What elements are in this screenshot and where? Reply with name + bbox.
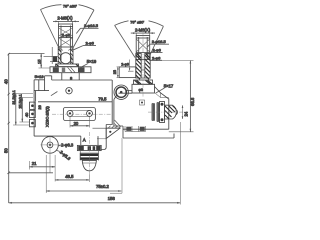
side centerline vertical <box>142 30 144 98</box>
dim 31.5 ext lines <box>13 94 33 126</box>
svg-text:5×17: 5×17 <box>164 84 174 89</box>
dim 75 arrows <box>46 190 121 192</box>
angle dim 76 left: right arm <box>72 10 94 50</box>
leader rotated label <box>57 150 60 151</box>
body right edge <box>106 80 112 125</box>
dim line 2-M8 right <box>131 32 155 34</box>
flange under fork <box>56 64 79 67</box>
ext vertical gland tip to 156 <box>179 122 181 205</box>
head column left <box>59 24 73 47</box>
dome inner line <box>83 162 96 164</box>
block top faint line <box>97 138 106 140</box>
side collar dark blocks <box>135 80 153 84</box>
angle dim 76 left: left arm <box>41 10 61 52</box>
dim 24 arrows <box>182 105 184 119</box>
roller pin left pad <box>53 56 57 62</box>
plunger neck <box>81 136 98 145</box>
side collar row <box>134 80 153 84</box>
side head inner lines <box>139 37 148 60</box>
plunger flange <box>77 145 101 150</box>
head column inner lines <box>61 26 70 48</box>
left chain ticks <box>7 53 10 174</box>
side body outline <box>114 87 169 130</box>
collar outline <box>50 67 91 73</box>
dim 15: top ext line <box>9 53 45 55</box>
dim 25 arrows <box>117 67 119 78</box>
leader 2-phi6 lower <box>74 46 97 50</box>
plunger centerline <box>88 132 90 175</box>
svg-text:2-φ6: 2-φ6 <box>62 32 71 37</box>
svg-text:2-φ5.3: 2-φ5.3 <box>59 149 72 161</box>
svg-text:156: 156 <box>108 196 116 201</box>
dim line 2-M8 left head <box>53 20 79 22</box>
ext vertical roller center <box>49 155 51 173</box>
svg-text:15: 15 <box>36 59 41 64</box>
side fork right plate hatched <box>145 54 150 79</box>
ext line top 66.6 <box>150 60 193 62</box>
dim 21 line <box>29 166 55 168</box>
wing triangle <box>106 128 120 138</box>
dim 48.5 arrows <box>55 179 89 181</box>
terminal screw 3 <box>30 120 36 127</box>
left chain vertical line <box>8 54 10 204</box>
hole upper left <box>66 88 72 94</box>
dim 75 line <box>46 190 121 192</box>
roller crosshair <box>40 135 59 154</box>
base small rects <box>125 126 146 132</box>
body left edge <box>34 80 36 136</box>
nameplate hole right <box>87 110 93 116</box>
dim 31.5 line <box>15 94 17 126</box>
svg-text:25.5±0.1: 25.5±0.1 <box>18 94 22 108</box>
ext vertical plunger center <box>88 175 90 183</box>
fork cross lines <box>59 47 73 50</box>
angle dim 76 right: arc left segment <box>115 21 129 26</box>
svg-text:2-φ6: 2-φ6 <box>86 41 95 46</box>
gland cap hatched <box>165 105 177 119</box>
dim 15 lower ext <box>39 67 51 69</box>
angle dim 76 right: right arm <box>150 26 163 55</box>
gland tip nub <box>176 110 177 115</box>
bellows band 2 <box>80 157 98 160</box>
flange dark blocks <box>78 146 84 150</box>
side head mid line <box>136 52 150 54</box>
head column cross brace <box>59 28 73 47</box>
svg-text:A: A <box>83 138 86 143</box>
angle dim 76 left: arc right segment <box>79 5 95 10</box>
svg-text:24: 24 <box>183 111 188 116</box>
dim 66.6 vertical line <box>189 61 191 132</box>
leader 5x19 right <box>79 64 88 68</box>
dim 156 line <box>9 202 181 204</box>
side fork left plate hatched <box>136 54 141 79</box>
leader 5x17 <box>156 88 165 93</box>
nameplate hole left <box>67 110 73 116</box>
terminal screw 2 <box>30 110 36 117</box>
svg-text:5×19: 5×19 <box>35 74 45 79</box>
bellows band 1 <box>80 154 98 157</box>
dim 25.5 arrows <box>21 98 23 123</box>
leader arrowhead <box>129 68 130 70</box>
side head base block <box>132 84 155 93</box>
svg-text:50: 50 <box>3 148 8 153</box>
terminal screw 2 dot <box>31 113 34 116</box>
centerline through holes <box>52 113 112 115</box>
svg-text:79.5: 79.5 <box>98 96 107 101</box>
gland strip dark bars <box>153 104 154 120</box>
fork left plate hatched <box>58 47 61 64</box>
wing screw dot <box>109 131 111 133</box>
lower right block <box>101 125 106 150</box>
dim 15 arrows <box>40 54 42 69</box>
svg-text:2-φ6: 2-φ6 <box>152 55 161 60</box>
small detail rect in side body <box>140 100 145 105</box>
dim 24 line <box>182 105 184 119</box>
cable gland strips <box>152 103 160 122</box>
dim 21 arrows <box>29 166 55 168</box>
dim arrows 2-M8 right <box>133 32 153 34</box>
dim 20 arrows <box>70 125 90 127</box>
angle dim 76 left: arc left segment <box>41 5 62 10</box>
ear top edge <box>34 76 52 80</box>
lever roller center dot <box>49 144 51 146</box>
collar screw mid-left <box>62 68 65 72</box>
pin lower line <box>50 61 58 63</box>
collar screw left <box>53 67 59 72</box>
dim 156 arrows <box>9 202 181 204</box>
dim 25.5 ext lines <box>20 98 34 123</box>
terminal screw 1 <box>30 102 36 109</box>
head column top inner cap <box>59 26 73 28</box>
leader diagonal from text <box>51 92 58 96</box>
gland nut block <box>160 102 165 123</box>
fork right plate hatched <box>70 47 73 64</box>
leader right lower <box>150 59 162 61</box>
base hatch left corner <box>115 120 121 127</box>
hole upper left dot <box>68 90 70 92</box>
svg-text:2-φ16.5: 2-φ16.5 <box>84 23 99 28</box>
collar center hatch <box>68 67 76 72</box>
svg-text:21: 21 <box>32 161 37 166</box>
svg-text:8: 8 <box>70 75 73 80</box>
svg-text:5×19: 5×19 <box>87 59 97 64</box>
dim 25 ext ticks <box>117 67 122 78</box>
roller pin left bracket vertical <box>51 47 53 64</box>
wing hatch ticks <box>108 126 121 129</box>
svg-text:76° ±30': 76° ±30' <box>130 20 144 24</box>
side head cap line <box>136 37 150 39</box>
side head column <box>136 36 150 60</box>
dim 21 ext verticals <box>29 155 55 182</box>
small detail dot <box>141 102 143 104</box>
svg-text:26: 26 <box>38 105 42 109</box>
svg-text:20: 20 <box>74 121 79 126</box>
slot lines between holes <box>70 110 90 116</box>
bellows collar <box>80 151 98 153</box>
base feet dark left <box>126 127 131 131</box>
angle dim 76 right: left arm <box>115 25 135 57</box>
ext line bottom 66.6 <box>169 131 194 133</box>
leader 2-phi16.5 right <box>148 44 170 47</box>
side head cross <box>136 39 150 52</box>
svg-text:75±0.2: 75±0.2 <box>96 184 109 189</box>
ext line y172.8 <box>9 172 53 174</box>
head column mid line <box>59 37 73 39</box>
ext verticals 2-M8 right <box>136 33 150 35</box>
nameplate hole left dot <box>69 112 71 114</box>
lever roller hub <box>47 142 53 148</box>
dim 15 vertical line <box>40 54 42 69</box>
side roller circle outer <box>114 85 128 99</box>
lever roller <box>42 137 59 154</box>
leader right upper <box>148 53 163 55</box>
svg-text:48.5: 48.5 <box>65 174 74 179</box>
dim 66.6 arrows <box>190 61 192 132</box>
body top edge <box>52 79 112 81</box>
ext vertical left 75 <box>45 155 47 193</box>
bellows sides <box>80 153 98 160</box>
dim 48.5 line <box>55 179 89 181</box>
roller pin centerline left <box>44 56 59 58</box>
side body inner corner lines <box>155 93 169 98</box>
ear slot <box>34 80 49 91</box>
dim 20 line <box>70 125 90 127</box>
ext vertical from base left to 75 dim <box>121 138 123 193</box>
ext verticals 2-M8 left <box>59 21 73 24</box>
inner line lower right <box>93 127 121 129</box>
svg-text:31.5±0.1: 31.5±0.1 <box>12 90 16 104</box>
base feet dark right <box>140 127 145 131</box>
leader 2-phi16.5 <box>76 28 98 33</box>
svg-text:2-φ16.5: 2-φ16.5 <box>152 39 167 44</box>
dim arrows 2-M8 left <box>55 21 75 23</box>
svg-text:2-φ6: 2-φ6 <box>121 62 129 66</box>
roller in fork <box>60 53 71 64</box>
collar screw right <box>78 67 85 72</box>
side roller ring <box>116 87 126 97</box>
svg-text:40: 40 <box>4 79 9 84</box>
hook at bottom of ext <box>110 192 122 194</box>
svg-text:2-M8(X): 2-M8(X) <box>57 15 73 20</box>
svg-text:φ3: φ3 <box>139 88 143 92</box>
plunger dome <box>82 160 96 170</box>
svg-text:76° ±30': 76° ±30' <box>63 4 77 8</box>
nameplate rect <box>63 108 95 121</box>
leader 2-phi6 into bracket <box>128 60 134 72</box>
dim 25.5 line <box>21 98 23 123</box>
dim 31.5 arrows <box>15 94 17 126</box>
roller edge in fork gap <box>141 70 145 78</box>
svg-text:2-φ6.3: 2-φ6.3 <box>61 143 74 148</box>
terminal screw 3 dot <box>31 122 34 125</box>
dim 25 line <box>117 67 119 78</box>
side bracket rect <box>119 67 136 78</box>
dim 20 ext lines <box>70 117 90 128</box>
body mid line 79.5 <box>38 101 112 103</box>
svg-text:XZ8C-25(2): XZ8C-25(2) <box>45 105 50 127</box>
svg-text:40: 40 <box>24 112 29 117</box>
pedestal <box>62 73 79 80</box>
leader 2-phi6.3 <box>58 145 61 146</box>
base step lines <box>126 91 132 94</box>
angle dim 76 right: arc right segment <box>149 21 164 27</box>
svg-text:2-φ6: 2-φ6 <box>153 48 162 53</box>
nameplate hole right dot <box>88 112 90 114</box>
terminal screw 1 dot <box>31 104 34 107</box>
gland centerline <box>148 111 188 113</box>
body bottom edge <box>34 135 81 137</box>
svg-text:66.6: 66.6 <box>190 97 195 106</box>
gland nut screws <box>161 103 164 106</box>
svg-text:25: 25 <box>113 70 117 74</box>
flange dark ends <box>56 64 78 66</box>
side base plate <box>123 126 174 138</box>
side roller hub <box>120 91 123 94</box>
